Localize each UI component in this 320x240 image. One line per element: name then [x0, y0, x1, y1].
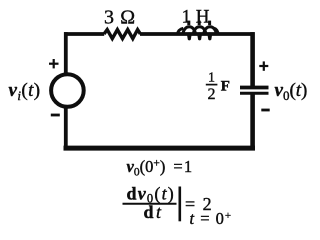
capacitor C bottom plate [240, 92, 269, 95]
resistor R (3 ohm) zigzag [104, 30, 140, 39]
source plus polarity mark [49, 59, 59, 68]
wire left vertical lower [64, 108, 68, 151]
svg-text:dt: dt [144, 202, 164, 222]
svg-text:vi(t): vi(t) [9, 80, 41, 103]
svg-text:3 Ω: 3 Ω [104, 7, 136, 29]
inductor coil loop blobs [187, 32, 213, 40]
svg-text:1: 1 [208, 70, 215, 85]
wire left vertical upper [64, 32, 68, 73]
capacitor minus polarity mark [261, 109, 269, 112]
svg-text:F: F [221, 79, 230, 95]
inductor loop top ticks [187, 21, 211, 26]
evaluation bar [179, 187, 182, 222]
source minus polarity mark [51, 114, 60, 117]
wire bottom [64, 146, 256, 151]
svg-text:t = 0+: t = 0+ [190, 209, 233, 228]
capacitor plus polarity mark [259, 61, 268, 70]
svg-text:1 H: 1 H [182, 7, 210, 28]
svg-text:v0(0+)=1: v0(0+)=1 [127, 157, 193, 179]
wire right vertical lower [250, 93, 255, 151]
derivative fraction bar [123, 203, 177, 205]
svg-text:v0(t): v0(t) [275, 80, 308, 103]
svg-text:2: 2 [208, 86, 216, 103]
capacitor C top plate [240, 86, 269, 90]
wire top-left segment [64, 32, 104, 36]
inductor L (1 H) coil arcs [177, 27, 218, 35]
capacitor value label 1/2 F [206, 70, 230, 103]
wire right vertical upper [250, 32, 255, 86]
wire top-middle segment [140, 32, 255, 36]
voltage source circle [51, 74, 84, 107]
